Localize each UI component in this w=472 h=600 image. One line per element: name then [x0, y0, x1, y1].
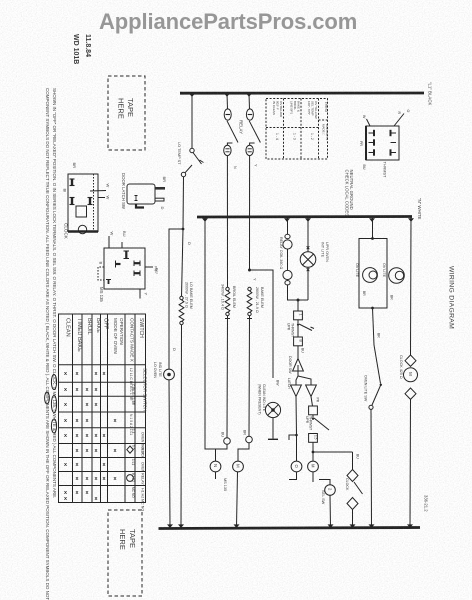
- junction wedge: [350, 524, 356, 528]
- ms135 cap 1: [124, 251, 130, 259]
- clock component box: [68, 174, 98, 232]
- node: [312, 451, 315, 454]
- oven thermostat component box: [366, 126, 399, 160]
- ms135 bottom pin Y: [139, 289, 141, 299]
- thrmst pin R3: [391, 149, 397, 155]
- oven light lamp 2: [389, 268, 405, 284]
- door latch pin (open): [155, 198, 164, 201]
- thrmst pin L2: [369, 139, 375, 145]
- ms135 cap 5: [106, 280, 111, 285]
- chain: square terminal 1: [297, 300, 299, 311]
- terminal circle BR: [246, 436, 253, 443]
- clock pin wire W lower: [98, 197, 105, 199]
- oven lite switch: [374, 345, 381, 384]
- wire from lo-temp switch down: [182, 177, 185, 229]
- socket circle O: [291, 461, 302, 472]
- ms135 pin W: [108, 236, 110, 248]
- relay switch 1: [226, 94, 229, 110]
- thrmst pin R1: [391, 130, 397, 136]
- clean indicator light: [265, 402, 280, 417]
- table X marks: [64, 371, 117, 502]
- latch triangle connector (right): [306, 385, 317, 397]
- clock cap pin 2: [70, 198, 75, 205]
- clock cap pin 3: [88, 198, 93, 205]
- wire socket2 to bottom bus: [329, 495, 332, 527]
- door latch pin BR (filled): [155, 187, 165, 190]
- resistor BROIL ELEM: [226, 287, 229, 290]
- clock inner square: [76, 206, 87, 217]
- wire right leg to bottom bus: [180, 325, 183, 527]
- ms135 left dashed lead: [98, 267, 104, 280]
- junction wedge: [234, 524, 240, 528]
- junction wedge: [189, 93, 195, 97]
- elbow to socket N: [216, 444, 228, 461]
- wire relay1 down: [226, 156, 228, 288]
- lo temp thermostat switch: [191, 94, 193, 148]
- wire socket M to bottom bus: [237, 472, 238, 527]
- wire feed to clean ind lite: [250, 270, 274, 378]
- wire to socket O: [296, 435, 298, 461]
- square terminal PR: [309, 406, 318, 415]
- junction wedge: [284, 218, 290, 222]
- wire left latch down: [295, 397, 298, 436]
- clock switch blade: [354, 482, 363, 494]
- node junction for clean lamp feed: [248, 269, 251, 272]
- junction wedge: [305, 218, 311, 222]
- wire relay2 down: [249, 156, 251, 270]
- wire right latch to PR square: [311, 397, 313, 407]
- relay switch 2: [248, 94, 251, 110]
- junction wedge: [408, 218, 414, 222]
- wire right leg upper: [182, 229, 184, 297]
- thrmst upr switch 2: [312, 415, 314, 418]
- wire bake leg down: [248, 316, 251, 436]
- junction wedge: [407, 524, 413, 528]
- thrmst pin L3: [369, 149, 375, 155]
- wire clock chain to bus: [409, 399, 412, 527]
- wire broil leg down: [226, 316, 229, 438]
- wire N-bus left drop: [205, 218, 216, 449]
- elbow to socket M: [238, 443, 249, 461]
- clock motor chain (425 ohm): [410, 217, 413, 355]
- socket circle N: [210, 461, 221, 472]
- relay coil winding 1: [283, 240, 292, 249]
- thrmst top-left pin: [367, 119, 371, 126]
- square terminal 1.5: [309, 434, 318, 443]
- ms135 pin BU top: [121, 242, 123, 248]
- sel sw socket elbow: [319, 480, 330, 485]
- thrmst pin L1: [369, 130, 375, 136]
- tape-here box (top): [108, 76, 145, 150]
- N bus: [197, 215, 412, 218]
- ms135 cap 4: [134, 271, 140, 277]
- table row lines: [59, 364, 146, 366]
- ms135 right pin BU: [145, 266, 153, 268]
- resistor LO BAKE ELEM: [180, 296, 183, 299]
- relay coil chain: [287, 218, 289, 234]
- selector switch table: [59, 314, 148, 511]
- square terminal B: [297, 326, 299, 337]
- node: [295, 434, 298, 437]
- socket circle 2: [325, 485, 336, 496]
- oven lights box: [372, 218, 374, 239]
- clock motor circle: [78, 225, 86, 233]
- relay coil winding 2: [283, 270, 292, 279]
- thermostat UPR switch: [297, 320, 299, 324]
- junction wedge: [202, 218, 208, 222]
- wire down to junction: [312, 442, 314, 461]
- ms135 cap 3: [134, 261, 140, 267]
- door latch inner contact: [135, 196, 138, 201]
- terminal circle BU: [224, 438, 231, 445]
- bottom neutral return bus: [159, 528, 421, 529]
- wire oven lite sw to bus: [370, 409, 373, 527]
- tape-here box (bottom): [108, 510, 142, 596]
- upper oven interior light: [307, 218, 309, 252]
- elbow below socket O: [289, 472, 297, 480]
- ms135 cap 2: [116, 261, 121, 268]
- table symbol diamond: [127, 446, 133, 453]
- door latch sw box: [127, 184, 155, 204]
- L1 bus: [180, 92, 424, 95]
- clock coil diamond chain: [352, 452, 354, 470]
- wire diamond to bus: [352, 510, 354, 528]
- junction wedge: [167, 524, 173, 528]
- lamp LO OVEN IND LITE: [164, 369, 175, 380]
- clock motor circle: [404, 368, 418, 382]
- oven thermostat contact table (dashed): [266, 99, 328, 160]
- junction wedge: [369, 218, 375, 222]
- junction wedge: [224, 93, 230, 97]
- door sw triangle connector: [293, 359, 304, 372]
- table symbol circle: [127, 475, 134, 482]
- oven light lamp 1: [363, 268, 378, 283]
- table column lines: [72, 314, 74, 503]
- wire junction to clock branch: [313, 451, 353, 453]
- socket circle M2: [308, 461, 319, 472]
- wire branch to left leg: [169, 229, 183, 369]
- wire from box bottom: [373, 308, 375, 345]
- MS 135 relay box: [104, 248, 145, 289]
- junction wedge: [178, 524, 184, 528]
- legend oval marks in disclaimer: [51, 375, 56, 390]
- latch triangle connector (left): [291, 385, 302, 397]
- junction wedge: [246, 93, 252, 97]
- thrmst pin R2: [391, 142, 397, 144]
- junction wedge: [328, 524, 334, 528]
- clock pin wire W upper: [90, 190, 106, 193]
- label BU: [297, 346, 299, 358]
- socket circle M: [233, 461, 244, 472]
- resistor BAKE ELEM: [248, 287, 251, 290]
- clock cap pin 1: [70, 179, 75, 186]
- wire coil to common: [288, 285, 309, 300]
- thrmst top-right pin: [394, 114, 404, 127]
- wire left leg to bottom bus: [169, 380, 170, 527]
- junction wedge: [369, 524, 375, 528]
- node (junction dot): [182, 228, 185, 231]
- split wires to latch connectors: [297, 371, 299, 376]
- node: [297, 299, 300, 302]
- wire below clean lamp: [272, 418, 274, 439]
- node at box bottom: [371, 307, 374, 310]
- stub left: [289, 435, 297, 440]
- door latch lever bar: [136, 205, 144, 208]
